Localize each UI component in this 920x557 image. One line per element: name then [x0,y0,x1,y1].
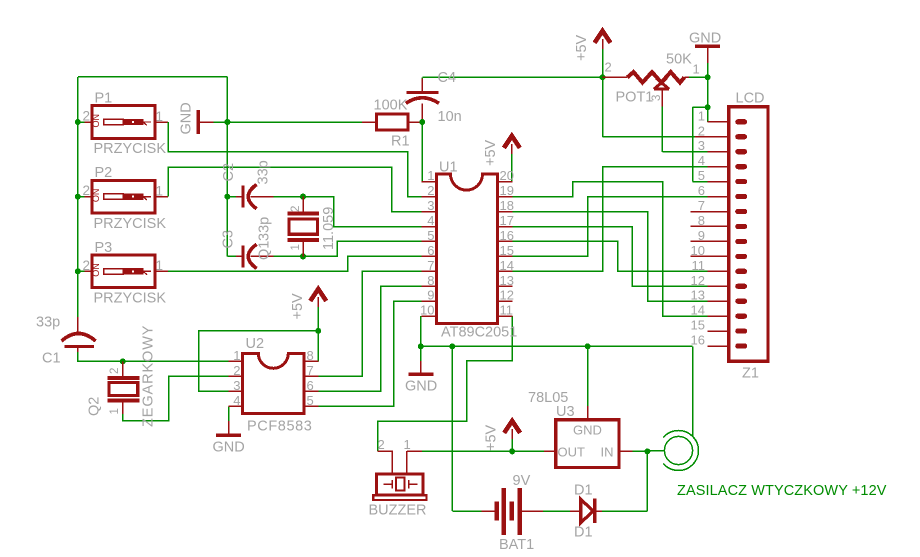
svg-text:18: 18 [500,198,514,213]
svg-text:9V: 9V [513,473,531,489]
wire Q2 pin1 to U2 pin2 [123,376,229,421]
svg-text:1: 1 [427,168,434,183]
wire button pin2 lead [78,196,85,198]
pin 14 (Z1 LCD) [707,315,728,317]
svg-text:GND: GND [179,102,195,134]
svg-text:5: 5 [698,168,705,183]
svg-text:16: 16 [691,333,705,348]
pin 6 (U2) [305,390,319,392]
wire GND symbol to junction [214,121,228,123]
wire R1 pin1 lead to junction [408,121,423,123]
svg-text:9: 9 [427,288,434,303]
potentiometer POT1 50K [627,72,684,83]
svg-text:3: 3 [698,138,705,153]
svg-text:33p: 33p [257,217,273,241]
pin 11 (U1) [497,315,512,317]
junction P2 pin2 / bus [75,194,81,200]
wire GND bus to BAT1 minus [451,346,453,511]
ground GND (top right) [695,45,720,48]
wire P3 pin1 lead [155,270,168,272]
diode D1 [581,499,593,523]
wire C3 right lead [251,255,274,257]
capacitor C1 33p [62,334,96,342]
svg-text:PRZYCISK: PRZYCISK [94,291,167,307]
pin 6 (U1) [422,255,437,257]
pin 1 (U1) [422,181,437,183]
wire trunk to C2 left plate [227,196,236,198]
svg-text:U2: U2 [246,336,265,352]
wire GND down [707,77,709,107]
junction GND branch [705,104,711,110]
svg-text:11.059: 11.059 [321,207,337,250]
pin 9 (U1) [422,300,437,302]
svg-text:4: 4 [233,393,240,408]
junction +5V / POT1 pin2 [600,74,606,80]
wire buzzer pin1 vertical lead [406,451,408,474]
wire U2 GND stem dark part [228,421,230,434]
svg-text:1: 1 [156,258,164,273]
wire U2 pin4 to GND symbol [228,406,230,421]
connector Z1 LCD [729,107,768,361]
svg-text:2: 2 [290,206,302,212]
wire GND trunk to C2/C3 [226,77,228,257]
svg-text:2: 2 [378,437,385,452]
power +5V (top) [595,31,611,43]
svg-text:8: 8 [307,348,314,363]
svg-text:P3: P3 [95,240,113,256]
wire U3 IN to junction [633,450,648,452]
pin 5 (U2) [305,405,319,407]
svg-text:13: 13 [500,273,514,288]
svg-text:1: 1 [109,408,121,414]
crystal Q2 ZEGARKOWY [107,376,139,380]
pin 16 (Z1 LCD) [707,345,728,347]
pin 3 (Z1 LCD) [707,151,728,153]
svg-text:17: 17 [500,213,514,228]
wire U3 OUT pin lead [544,450,556,452]
wire BAT1 plus lead [520,510,543,512]
junction POT1 pin1 / GND [705,74,711,80]
pin 11 (Z1 LCD) [707,270,728,272]
junction GND bus / battery branch [449,343,455,349]
svg-text:2: 2 [427,183,434,198]
wire BAT1 minus lead [482,510,497,512]
wire U1 pin16 to LCD pin11 [512,241,707,271]
pushbutton P1 [91,106,155,139]
svg-text:14: 14 [691,303,705,318]
wire GND symbol stem under U1 [420,346,422,361]
ground GND (near P1) [197,110,200,134]
wire junction down to U1 pin1 [421,122,423,182]
svg-text:100K: 100K [374,98,408,114]
wire C2 right lead [251,196,274,198]
svg-text:12: 12 [500,288,514,303]
junction GND / R1 / trunk [224,119,230,125]
wire P3 pin1 to U1 pin6 [168,256,422,271]
wire +5V to U2 pin8 [317,331,319,362]
wire junction to R1 left [227,121,362,123]
svg-text:OUT: OUT [558,445,586,460]
wire P1 pin1 lead [155,121,168,123]
junction C2 / trunk [224,194,230,200]
wire U1 pin17 to LCD pin12 [512,227,707,287]
wire U1 pin19 to LCD pin14 [512,182,707,317]
svg-text:1: 1 [404,437,411,452]
pin 7 (U1) [422,270,437,272]
pin 4 (Z1 LCD) [707,166,728,168]
wire GND bus down to plug sleeve [692,346,694,436]
capacitor C4 [406,91,438,94]
connector plug (wall supply) [664,436,692,464]
wire GND top rail [78,76,228,78]
svg-text:15: 15 [691,318,705,333]
pin 12 (Z1 LCD) [707,285,728,287]
wire button pin2 lead [78,121,85,123]
svg-text:7: 7 [427,258,434,273]
svg-text:PRZYCISK: PRZYCISK [94,141,167,157]
pushbutton P2 [91,180,155,213]
svg-text:ZASILACZ WTYCZKOWY +12V: ZASILACZ WTYCZKOWY +12V [677,483,887,499]
svg-text:2: 2 [109,368,121,374]
capacitor C3 33p [241,245,244,267]
svg-text:U1: U1 [439,160,458,176]
svg-text:+5V: +5V [574,34,590,61]
wire U2 pin5 to U1 pin9 [318,301,421,406]
wire GND stem green part [707,63,709,77]
wire P2 pin1 to U1 pin3 [168,167,422,211]
svg-text:16: 16 [500,228,514,243]
junction Q2 pin2 / C1 / U2 pin1 [120,358,126,364]
wire D1 cathode to junction [602,510,647,512]
svg-text:7: 7 [307,363,314,378]
pin 4 (U1) [422,226,437,228]
wire wiper to LCD pin3 [662,151,707,153]
wire +5V stem above U2 [317,307,319,331]
wire +5V supply stem [602,49,604,78]
wire POT1 pin2 lead [603,76,628,78]
svg-text:C2: C2 [221,163,237,182]
svg-text:7: 7 [698,198,705,213]
regulator U3 78L05 [556,420,619,468]
svg-text:2: 2 [233,363,240,378]
wire +5V stem bottom [511,439,513,452]
wire C1 top lead [77,317,79,333]
svg-text:PCF8583: PCF8583 [247,419,312,435]
wire U1 pin14 to LCD pin4 [512,167,707,271]
pin 9 (Z1 LCD) [691,240,729,242]
wire GND to LCD pin1 [707,107,709,122]
svg-text:15: 15 [500,243,514,258]
wire buzzer pin1 to +5V junction [422,450,512,452]
svg-text:11: 11 [692,258,706,273]
wire U3 IN pin lead [619,450,633,452]
svg-text:6: 6 [427,243,434,258]
pin 8 (U1) [422,285,437,287]
svg-text:GND: GND [689,31,721,47]
wire Q1 pin2 to U1 pin4 [303,197,422,227]
svg-text:ON: ON [91,114,101,128]
wire C1 to U2 pin1 [78,352,229,361]
svg-text:8: 8 [427,273,434,288]
wire U1 pin10 to GND bus [420,316,422,346]
svg-text:POT1: POT1 [616,90,654,106]
svg-text:2: 2 [698,123,705,138]
wire C4 top lead [421,79,423,92]
wire GND to BAT1 [452,510,481,512]
wire U1 pin18 to LCD pin13 [512,212,707,302]
buzzer BUZZER [376,474,423,495]
wire +5V down to LCD pin2 row [602,77,604,137]
pin 8 (U2) [305,360,319,362]
wire +5V to U1 pin20 [511,154,513,182]
pin 13 (U1) [497,285,512,287]
svg-text:Q1: Q1 [257,241,273,260]
svg-text:9: 9 [698,228,705,243]
wire GND symbol stem [707,46,709,63]
junction U3 IN / plug / D1 [644,448,650,454]
junction P1 pin2 / bus [75,119,81,125]
wire POT1 wiper lead [661,89,663,106]
wire Q2 pin1 lead [122,401,124,415]
junction Q1 pin1 [300,253,306,259]
svg-text:D1: D1 [574,483,593,499]
svg-text:Z1: Z1 [742,366,759,382]
svg-text:1: 1 [290,244,302,250]
wire D1 cathode lead [595,510,602,512]
wire LCD pin2 lead [695,136,707,138]
resistor R1 [376,114,407,130]
svg-text:GND: GND [213,440,245,456]
op-amp U1 AT89C2051 (DIP-20 body) [437,174,498,324]
svg-text:6: 6 [698,183,705,198]
pin 4 (U2) [229,405,243,407]
svg-text:13: 13 [691,288,705,303]
battery BAT1 9V [494,502,499,521]
wire GND symbol stem dark part [420,361,422,373]
svg-text:IN: IN [601,445,614,460]
svg-text:C1: C1 [42,351,61,367]
wire GND down to LCD pin5 row [692,107,694,182]
svg-text:8: 8 [698,213,705,228]
wire U2 pin6 to U1 pin8 [318,286,421,391]
power +5V (above U1) [504,136,520,148]
junction Q1 pin2 [300,194,306,200]
svg-text:ON: ON [91,189,101,203]
pin 5 (Z1 LCD) [707,181,728,183]
crystal Q1 11.059 [302,197,304,257]
wire +5V to U2 pin3 [199,331,319,391]
svg-text:4: 4 [698,153,705,168]
svg-text:R1: R1 [391,134,410,150]
svg-text:10: 10 [691,243,705,258]
svg-text:33p: 33p [256,160,272,184]
svg-text:+5V: +5V [290,293,306,320]
svg-text:10n: 10n [438,109,462,125]
pushbutton P3 [91,255,155,288]
svg-text:LCD: LCD [736,91,765,107]
wire C2 to Q1 pin2 [274,196,304,198]
svg-text:5: 5 [427,228,434,243]
wire C4 to +5V rail elbow [421,77,423,78]
svg-text:GND: GND [573,423,602,438]
wire POT1 pin1 lead [684,76,689,78]
pin 20 (U1) [497,181,512,183]
pin 6 (Z1 LCD) [707,196,728,198]
junction +5V / U2 pin8 / U2 pin3 [315,328,321,334]
pin 18 (U1) [497,211,512,213]
wire buzzer pin2 lead [378,451,393,474]
svg-text:U3: U3 [556,404,575,420]
pin 14 (U1) [497,270,512,272]
svg-text:+5V: +5V [483,139,499,166]
wire GND bus [421,345,693,347]
svg-text:5: 5 [307,393,314,408]
pin 8 (Z1 LCD) [691,225,729,227]
svg-text:10: 10 [420,303,434,318]
svg-text:11: 11 [500,303,514,318]
svg-text:20: 20 [500,168,514,183]
svg-text:ZEGARKOWY: ZEGARKOWY [141,325,157,427]
pin 3 (U2) [229,390,243,392]
wire U2 pin7 to U1 pin7 [318,271,421,376]
wire GND left bus (P1/P2/P3 pin2) [77,77,79,317]
pin 16 (U1) [497,240,512,242]
svg-text:1: 1 [156,109,164,124]
junction P3 pin2 / bus [75,268,81,274]
svg-text:4: 4 [427,213,434,228]
svg-text:D1: D1 [574,525,593,541]
wire wiper down [661,106,663,152]
pin 2 (U2) [229,375,243,377]
pin 2 (Z1 LCD) [707,136,728,138]
svg-text:1: 1 [233,348,240,363]
wire C1 bottom lead [77,346,79,352]
pin 2 (U1) [422,196,437,198]
wire P1 pin1 to U1 pin2 [168,122,422,197]
wire button pin2 lead [78,270,85,272]
wire Q1 pin1 to U1 pin5 [303,241,422,256]
power +5V (above U2) [310,289,326,301]
wire C2 left lead [236,196,242,198]
wire buzzer pin1 lead [407,450,422,452]
wire P2 pin1 lead [155,196,168,198]
svg-text:+5V: +5V [484,424,500,451]
pin 15 (Z1 LCD) [707,330,728,332]
svg-text:33p: 33p [36,315,60,331]
svg-text:1: 1 [156,184,164,199]
svg-text:50K: 50K [666,52,692,68]
pin 7 (Z1 LCD) [691,211,729,213]
pin 10 (U1) [422,315,437,317]
pin 15 (U1) [497,255,512,257]
junction +5V / buzzer / U3 OUT [509,448,515,454]
svg-text:3: 3 [651,95,663,101]
wire GND bus to U3 GND [587,346,589,406]
svg-text:AT89C2051: AT89C2051 [441,325,517,341]
wire Q2 pin2 lead [122,361,124,377]
pin 7 (U2) [305,375,319,377]
ground GND (under U1) [408,373,433,376]
svg-text:BUZZER: BUZZER [369,503,427,519]
wire GND to LCD pin5 [693,181,708,183]
wire POT1 pin1 to GND junction [689,76,708,78]
ground GND (under U2) [216,434,241,437]
wire junction down to D1 cathode [646,451,648,511]
pin 19 (U1) [497,196,512,198]
capacitor C2 33p [241,186,244,208]
wire U1 pin15 to LCD pin6 [512,197,707,257]
pin 10 (Z1 LCD) [691,255,729,257]
svg-text:C4: C4 [438,70,457,86]
junction GND bus / U3 branch [585,343,591,349]
wire +5V rail C4 to POT1 [422,76,602,78]
junction R1/C4/U1.RST [419,119,425,125]
svg-text:2: 2 [605,60,612,75]
pin 5 (U1) [422,240,437,242]
wire R1 pin2 lead [362,121,376,123]
svg-text:6: 6 [307,378,314,393]
svg-text:3: 3 [427,198,434,213]
svg-text:GND: GND [405,379,437,395]
wire BAT1 to D1 anode [543,510,570,512]
svg-text:14: 14 [500,258,514,273]
svg-text:PRZYCISK: PRZYCISK [94,216,167,232]
svg-text:3: 3 [233,378,240,393]
wire trunk to C3 left plate [227,255,236,257]
svg-text:P2: P2 [95,165,113,181]
svg-text:BAT1: BAT1 [499,537,534,553]
pin 12 (U1) [497,300,512,302]
wire D1 anode lead [570,510,580,512]
svg-text:1: 1 [698,108,705,123]
pin 13 (Z1 LCD) [707,300,728,302]
svg-text:ON: ON [91,263,101,277]
pin 1 (U2) [229,360,243,362]
svg-text:12: 12 [691,273,705,288]
wire U3 GND pin lead [587,406,589,420]
svg-text:19: 19 [500,183,514,198]
op-amp U2 PCF8583 (DIP-8 body) [243,353,304,413]
pin 1 (Z1 LCD) [707,121,728,123]
wire U1 pin11 to buzzer pin2 [378,316,513,451]
junction U1 pin10 / GND bus [418,343,424,349]
svg-text:1: 1 [693,62,700,77]
svg-text:C3: C3 [221,230,237,249]
wire +5V to LCD pin2 [603,136,696,138]
svg-text:Q2: Q2 [87,397,103,416]
svg-text:P1: P1 [95,91,113,107]
wire junction to plug tip [647,450,664,452]
wire C4 bottom lead [421,104,423,123]
pin 17 (U1) [497,226,512,228]
power +5V (bottom) [504,421,520,433]
wire +5V junction to U3 OUT [512,450,544,452]
wire C3 to Q1 pin1 [274,255,304,257]
pin 3 (U1) [422,211,437,213]
wire C3 left lead [236,255,242,257]
wire GND branch left [693,106,708,108]
